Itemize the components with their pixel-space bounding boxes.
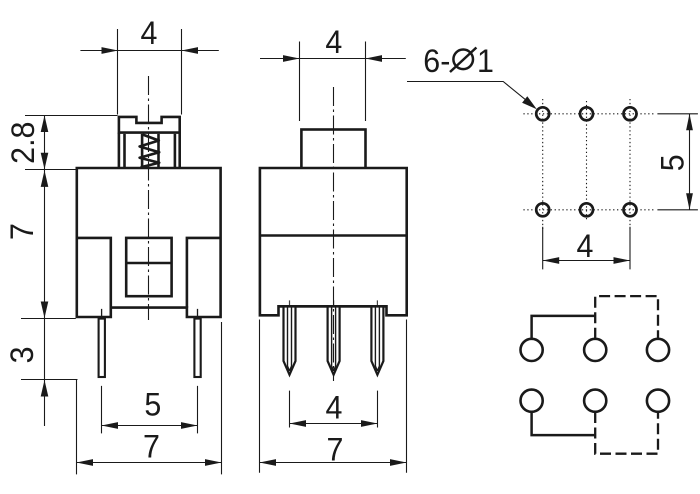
middle view: pin 3 bbox=[371, 307, 383, 375]
hole pattern: dotted construction lines bbox=[523, 114, 655, 210]
left view: center line bbox=[148, 76, 150, 320]
hole pattern: hole B3 bbox=[624, 203, 637, 216]
middle view dim 4 (top): dimension line bbox=[260, 58, 406, 60]
hole pattern dim 5 (right): dimension line bbox=[689, 114, 691, 210]
middle view dim 4 (bottom): arrows bbox=[290, 420, 307, 427]
schematic: contact B1 bbox=[521, 390, 543, 412]
hole pattern dim 5 (right): arrows bbox=[686, 114, 693, 131]
left view: spring zigzag bbox=[140, 135, 160, 168]
svg-text:4: 4 bbox=[325, 390, 342, 426]
hole pattern: hole A2 bbox=[580, 107, 593, 120]
left view dim 4 (top): arrows bbox=[102, 47, 119, 54]
middle view dim 7 (bottom): extension lines bbox=[260, 320, 407, 473]
left view: body interior lines (leg tops and inner edges) bbox=[77, 238, 221, 308]
schematic: contact B3 bbox=[647, 390, 669, 412]
middle view: pin 2 bbox=[328, 307, 340, 375]
middle view dim 4 (top): extension lines bbox=[300, 42, 366, 122]
left side dims: arrows bbox=[41, 116, 49, 133]
left view dim 4 (top): extension lines bbox=[118, 29, 182, 115]
svg-text:5: 5 bbox=[655, 154, 691, 171]
middle view: button bbox=[301, 130, 365, 169]
label 6-diam-1: leader arrowhead bbox=[522, 96, 537, 109]
left view: pin left bbox=[99, 319, 105, 377]
left view: center box bbox=[126, 238, 171, 296]
left view dim 4 (top): dimension line bbox=[80, 50, 218, 52]
svg-text:6-: 6- bbox=[423, 43, 450, 79]
left view: spring guide walls bbox=[142, 134, 158, 167]
schematic: contact B2 bbox=[584, 390, 606, 412]
hole pattern: hole A3 bbox=[624, 107, 637, 120]
left view: center box mid line bbox=[126, 262, 171, 265]
left side dims: extension lines (cap top, body top, body bottom, pin bottom) bbox=[21, 116, 118, 380]
middle view dim 7 (bottom): dimension line bbox=[260, 462, 407, 464]
left view: pin hint lines inside legs bbox=[102, 309, 198, 318]
left view: body outline bbox=[77, 168, 221, 317]
middle view: pin 1 bbox=[284, 307, 296, 375]
svg-text:7: 7 bbox=[4, 223, 40, 240]
svg-text:4: 4 bbox=[141, 15, 158, 51]
svg-text:4: 4 bbox=[577, 228, 594, 264]
left view dim 7 (bottom): dimension line bbox=[77, 462, 222, 464]
left view dim 7 (bottom): arrows bbox=[77, 459, 94, 466]
schematic: solid wire bottom (B1 to B2) bbox=[532, 412, 596, 435]
svg-text:3: 3 bbox=[4, 346, 40, 363]
schematic: contact A1 bbox=[521, 339, 543, 361]
middle view: pin hint stubs above base bbox=[290, 300, 378, 305]
left view: pin right bbox=[194, 319, 200, 377]
schematic: solid wire top (A1 to A2) bbox=[532, 316, 596, 339]
hole pattern dim 4 (bottom): dimension line bbox=[543, 260, 630, 262]
label 6-diam-1: leader underline and diagonal bbox=[407, 82, 533, 106]
left side dims: vertical dimension line bbox=[44, 116, 46, 427]
middle view dim 4 (bottom): extension lines bbox=[290, 391, 378, 428]
schematic: contact A3 bbox=[647, 339, 669, 361]
left view: plunger cap with notch bbox=[119, 117, 180, 133]
middle view: recessed base line overlay bbox=[279, 305, 387, 308]
svg-text:4: 4 bbox=[325, 24, 342, 60]
left view: plunger guide walls bbox=[119, 133, 180, 167]
schematic: dashed wire bottom (B2 to B3) bbox=[595, 412, 658, 454]
hole pattern: hole A1 bbox=[536, 107, 549, 120]
label 6-diam-1: diameter symbol bbox=[450, 48, 476, 73]
hole pattern dim 5 (right): extension lines bbox=[657, 114, 698, 210]
schematic: dashed wire top (A2 to A3) bbox=[595, 296, 658, 339]
svg-text:7: 7 bbox=[327, 432, 344, 468]
hole pattern: hole B1 bbox=[536, 203, 549, 216]
svg-text:7: 7 bbox=[143, 429, 160, 465]
svg-text:1: 1 bbox=[477, 43, 494, 79]
svg-text:2.8: 2.8 bbox=[5, 122, 41, 164]
left view dim 5 (bottom): extension lines bbox=[102, 386, 198, 434]
left view dim 5 (bottom): dimension line bbox=[102, 425, 198, 427]
schematic: contact A2 bbox=[584, 339, 606, 361]
svg-text:5: 5 bbox=[144, 387, 161, 423]
middle view: divider line bbox=[260, 234, 407, 237]
hole pattern dim 4 (bottom): extension lines bbox=[543, 227, 630, 270]
middle view dim 4 (bottom): dimension line bbox=[290, 423, 378, 425]
middle view dim 4 (top): arrows bbox=[283, 55, 300, 62]
left view dim 5 (bottom): arrows bbox=[102, 422, 119, 429]
hole pattern dim 4 (bottom): arrows bbox=[543, 257, 560, 264]
middle view: body outline bbox=[260, 168, 407, 315]
hole pattern: hole B2 bbox=[580, 203, 593, 216]
middle view dim 7 (bottom): arrows bbox=[260, 459, 277, 466]
left view dim 7 (bottom): extension lines bbox=[77, 322, 222, 474]
middle view: center line bbox=[333, 87, 335, 381]
